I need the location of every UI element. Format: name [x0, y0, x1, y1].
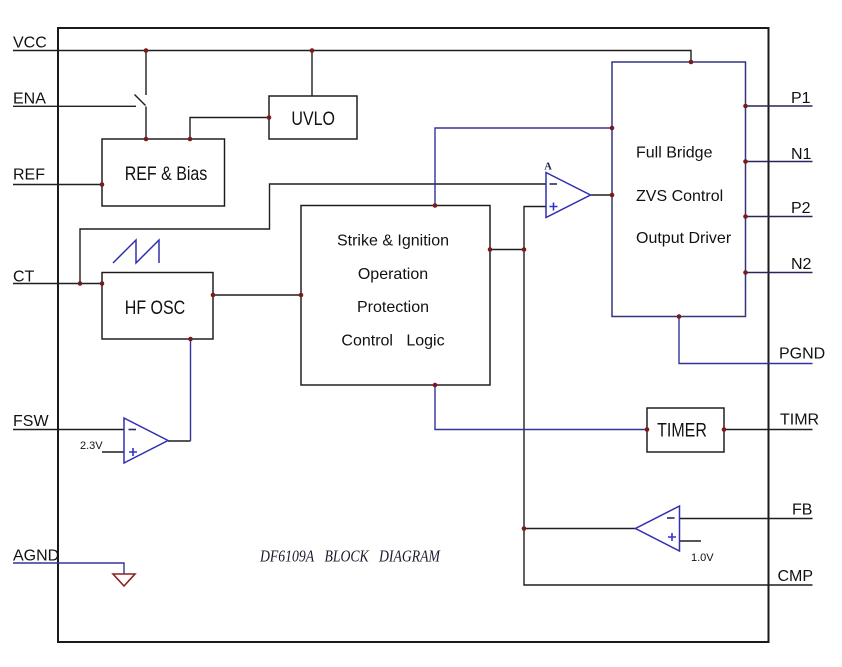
svg-text:ZVS Control: ZVS Control [636, 188, 723, 205]
svg-text:Control Logic: Control Logic [341, 332, 444, 349]
svg-text:AGND: AGND [13, 548, 59, 565]
svg-text:REF: REF [13, 167, 45, 184]
svg-text:Output Driver: Output Driver [636, 230, 732, 247]
svg-text:N1: N1 [791, 146, 812, 163]
svg-text:CT: CT [13, 269, 35, 286]
svg-text:UVLO: UVLO [291, 108, 335, 130]
svg-text:Full Bridge: Full Bridge [636, 145, 713, 162]
svg-text:Strike & Ignition: Strike & Ignition [337, 232, 449, 249]
svg-text:A: A [544, 162, 552, 173]
svg-text:TIMR: TIMR [780, 412, 819, 429]
svg-text:P2: P2 [791, 200, 811, 217]
svg-text:VCC: VCC [13, 35, 47, 52]
svg-text:PGND: PGND [779, 346, 825, 363]
svg-text:DF6109A BLOCK DIAGRAM: DF6109A BLOCK DIAGRAM [259, 547, 441, 566]
svg-text:FB: FB [792, 502, 812, 519]
svg-text:P1: P1 [791, 90, 811, 107]
svg-text:CMP: CMP [778, 568, 814, 585]
svg-text:REF & Bias: REF & Bias [125, 163, 208, 185]
svg-text:Operation: Operation [358, 266, 428, 283]
svg-text:N2: N2 [791, 256, 812, 273]
svg-text:HF OSC: HF OSC [125, 297, 186, 319]
svg-text:TIMER: TIMER [657, 419, 707, 441]
svg-text:FSW: FSW [13, 413, 49, 430]
svg-text:1.0V: 1.0V [691, 552, 714, 564]
svg-text:2.3V: 2.3V [80, 440, 103, 452]
svg-text:Protection: Protection [357, 299, 429, 316]
svg-text:ENA: ENA [13, 91, 46, 108]
